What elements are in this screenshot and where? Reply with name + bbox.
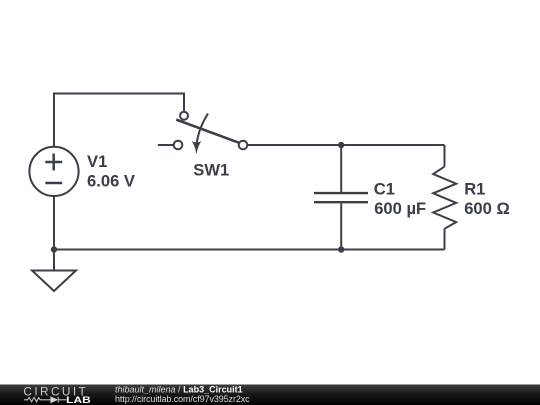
- wire bottom rail: [54, 249, 445, 251]
- wire R1 bottom lead: [444, 229, 446, 250]
- node junction top of C1: [338, 142, 344, 148]
- wire C1 bottom lead: [340, 203, 342, 249]
- node junction at ground: [51, 246, 57, 252]
- svg-text:V1: V1: [87, 152, 107, 171]
- wire V1 bottom lead: [53, 197, 55, 250]
- footer bar: [0, 385, 540, 405]
- resistor R1: [433, 167, 456, 229]
- CircuitLab logo: [23, 384, 91, 405]
- svg-text:600 Ω: 600 Ω: [464, 199, 510, 218]
- svg-text:SW1: SW1: [193, 160, 229, 179]
- capacitor C1: [314, 193, 368, 202]
- ground: [32, 250, 76, 292]
- voltage source V1: [29, 147, 78, 196]
- wire V1 top to switch: [54, 94, 184, 147]
- svg-text:600 µF: 600 µF: [374, 199, 426, 218]
- svg-text:C1: C1: [374, 179, 395, 198]
- wire R1 top lead: [444, 145, 446, 167]
- svg-text:http://circuitlab.com/cf97v395: http://circuitlab.com/cf97v395zr2xc: [115, 394, 250, 404]
- svg-text:R1: R1: [464, 179, 485, 198]
- svg-text:6.06 V: 6.06 V: [87, 172, 135, 191]
- switch SW1: [158, 112, 248, 154]
- wire switch right terminal to R1 top: [248, 144, 445, 146]
- svg-text:LAB: LAB: [66, 395, 91, 405]
- node junction bottom of C1: [338, 246, 344, 252]
- wire C1 top lead: [340, 145, 342, 192]
